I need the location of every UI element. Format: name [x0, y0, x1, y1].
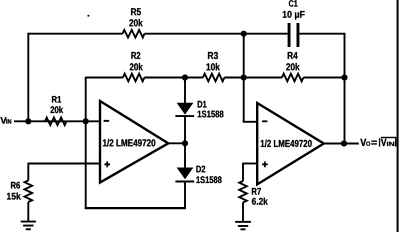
resistor R3: [203, 52, 224, 81]
U2 plus pin mark: [262, 163, 268, 165]
op-amp U1 (1/2 LME49720): [100, 101, 168, 183]
resistor R4: [282, 52, 303, 81]
wire: top rail right segment from C1: [299, 33, 345, 35]
U1 plus pin mark: [104, 163, 110, 165]
wire: junction down to D2 anode: [184, 143, 186, 168]
node: output junction: [341, 140, 347, 146]
wire: D2 cathode down to bottom feedback run: [184, 182, 186, 209]
capacitor C1: [283, 0, 305, 47]
diode D1 (1S1588): [175, 101, 223, 118]
node: A1 inverting input junction: [83, 118, 89, 124]
resistor R6: [7, 181, 32, 203]
wire: vertical from top rail to A2 inverting input: [243, 34, 245, 122]
label VIN: [0, 117, 11, 123]
resistor R5: [123, 8, 145, 37]
U1 minus pin mark: [104, 120, 110, 122]
diode D2 (1S1588): [175, 166, 221, 184]
ground (R7): [235, 221, 251, 230]
wire: VIN node up to top feedback rail: [27, 33, 29, 121]
wire: R6 to ground: [27, 202, 29, 222]
resistor R1: [45, 96, 66, 125]
figure right border: [397, 0, 399, 232]
U2 minus pin mark: [262, 120, 267, 122]
overline on VIN: [381, 137, 397, 138]
wire: junction down to D1 anode: [184, 78, 186, 104]
label VO = |VIN|: [360, 137, 397, 147]
node: A1 output / D1-D2 junction: [182, 140, 188, 146]
node: top rail / R4 right junction: [341, 74, 347, 80]
wire: second rail from R4 to right vertical: [303, 77, 344, 79]
node: R2/R3/D1 junction: [182, 74, 188, 80]
ground (R6): [21, 221, 36, 231]
wire: A2 non-inverting input horizontal: [242, 163, 257, 165]
wire: R7 to ground: [242, 202, 244, 221]
resistor R2: [123, 52, 144, 81]
wire: A1 non-inverting input: [28, 163, 100, 165]
stray scan speck: [87, 15, 89, 17]
wire: A2 inverting input horizontal: [243, 121, 258, 123]
wire: second rail between R3 and R4: [224, 77, 282, 79]
wire: second rail between R2 and R3: [144, 77, 203, 79]
wire: R7 branch down: [242, 164, 244, 182]
wire: second rail corner at A1 inverting branch: [86, 77, 123, 79]
wire: VIN input to A1 inverting input: [14, 120, 100, 122]
wire: left mid vertical (A1 inverting node / feedback): [85, 77, 87, 209]
wire: A2 output: [324, 143, 359, 145]
wire: A1 output to diode node: [168, 142, 185, 144]
wire: top rail mid segment to C1: [145, 33, 288, 35]
wire: D1 cathode to A1 output node: [184, 117, 186, 144]
op-amp U2 (1/2 LME49720): [257, 103, 324, 184]
node: VIN feedback junction: [25, 118, 31, 124]
node: C1 top rail junction: [241, 31, 247, 37]
wire: right vertical from top rail down to output node: [344, 34, 346, 144]
resistor R7: [239, 181, 268, 205]
wire: top rail left segment: [28, 33, 123, 35]
wire: R6 branch down: [27, 164, 29, 181]
wire: bottom feedback run: [85, 207, 186, 209]
node: R3/R4 junction: [241, 74, 247, 80]
